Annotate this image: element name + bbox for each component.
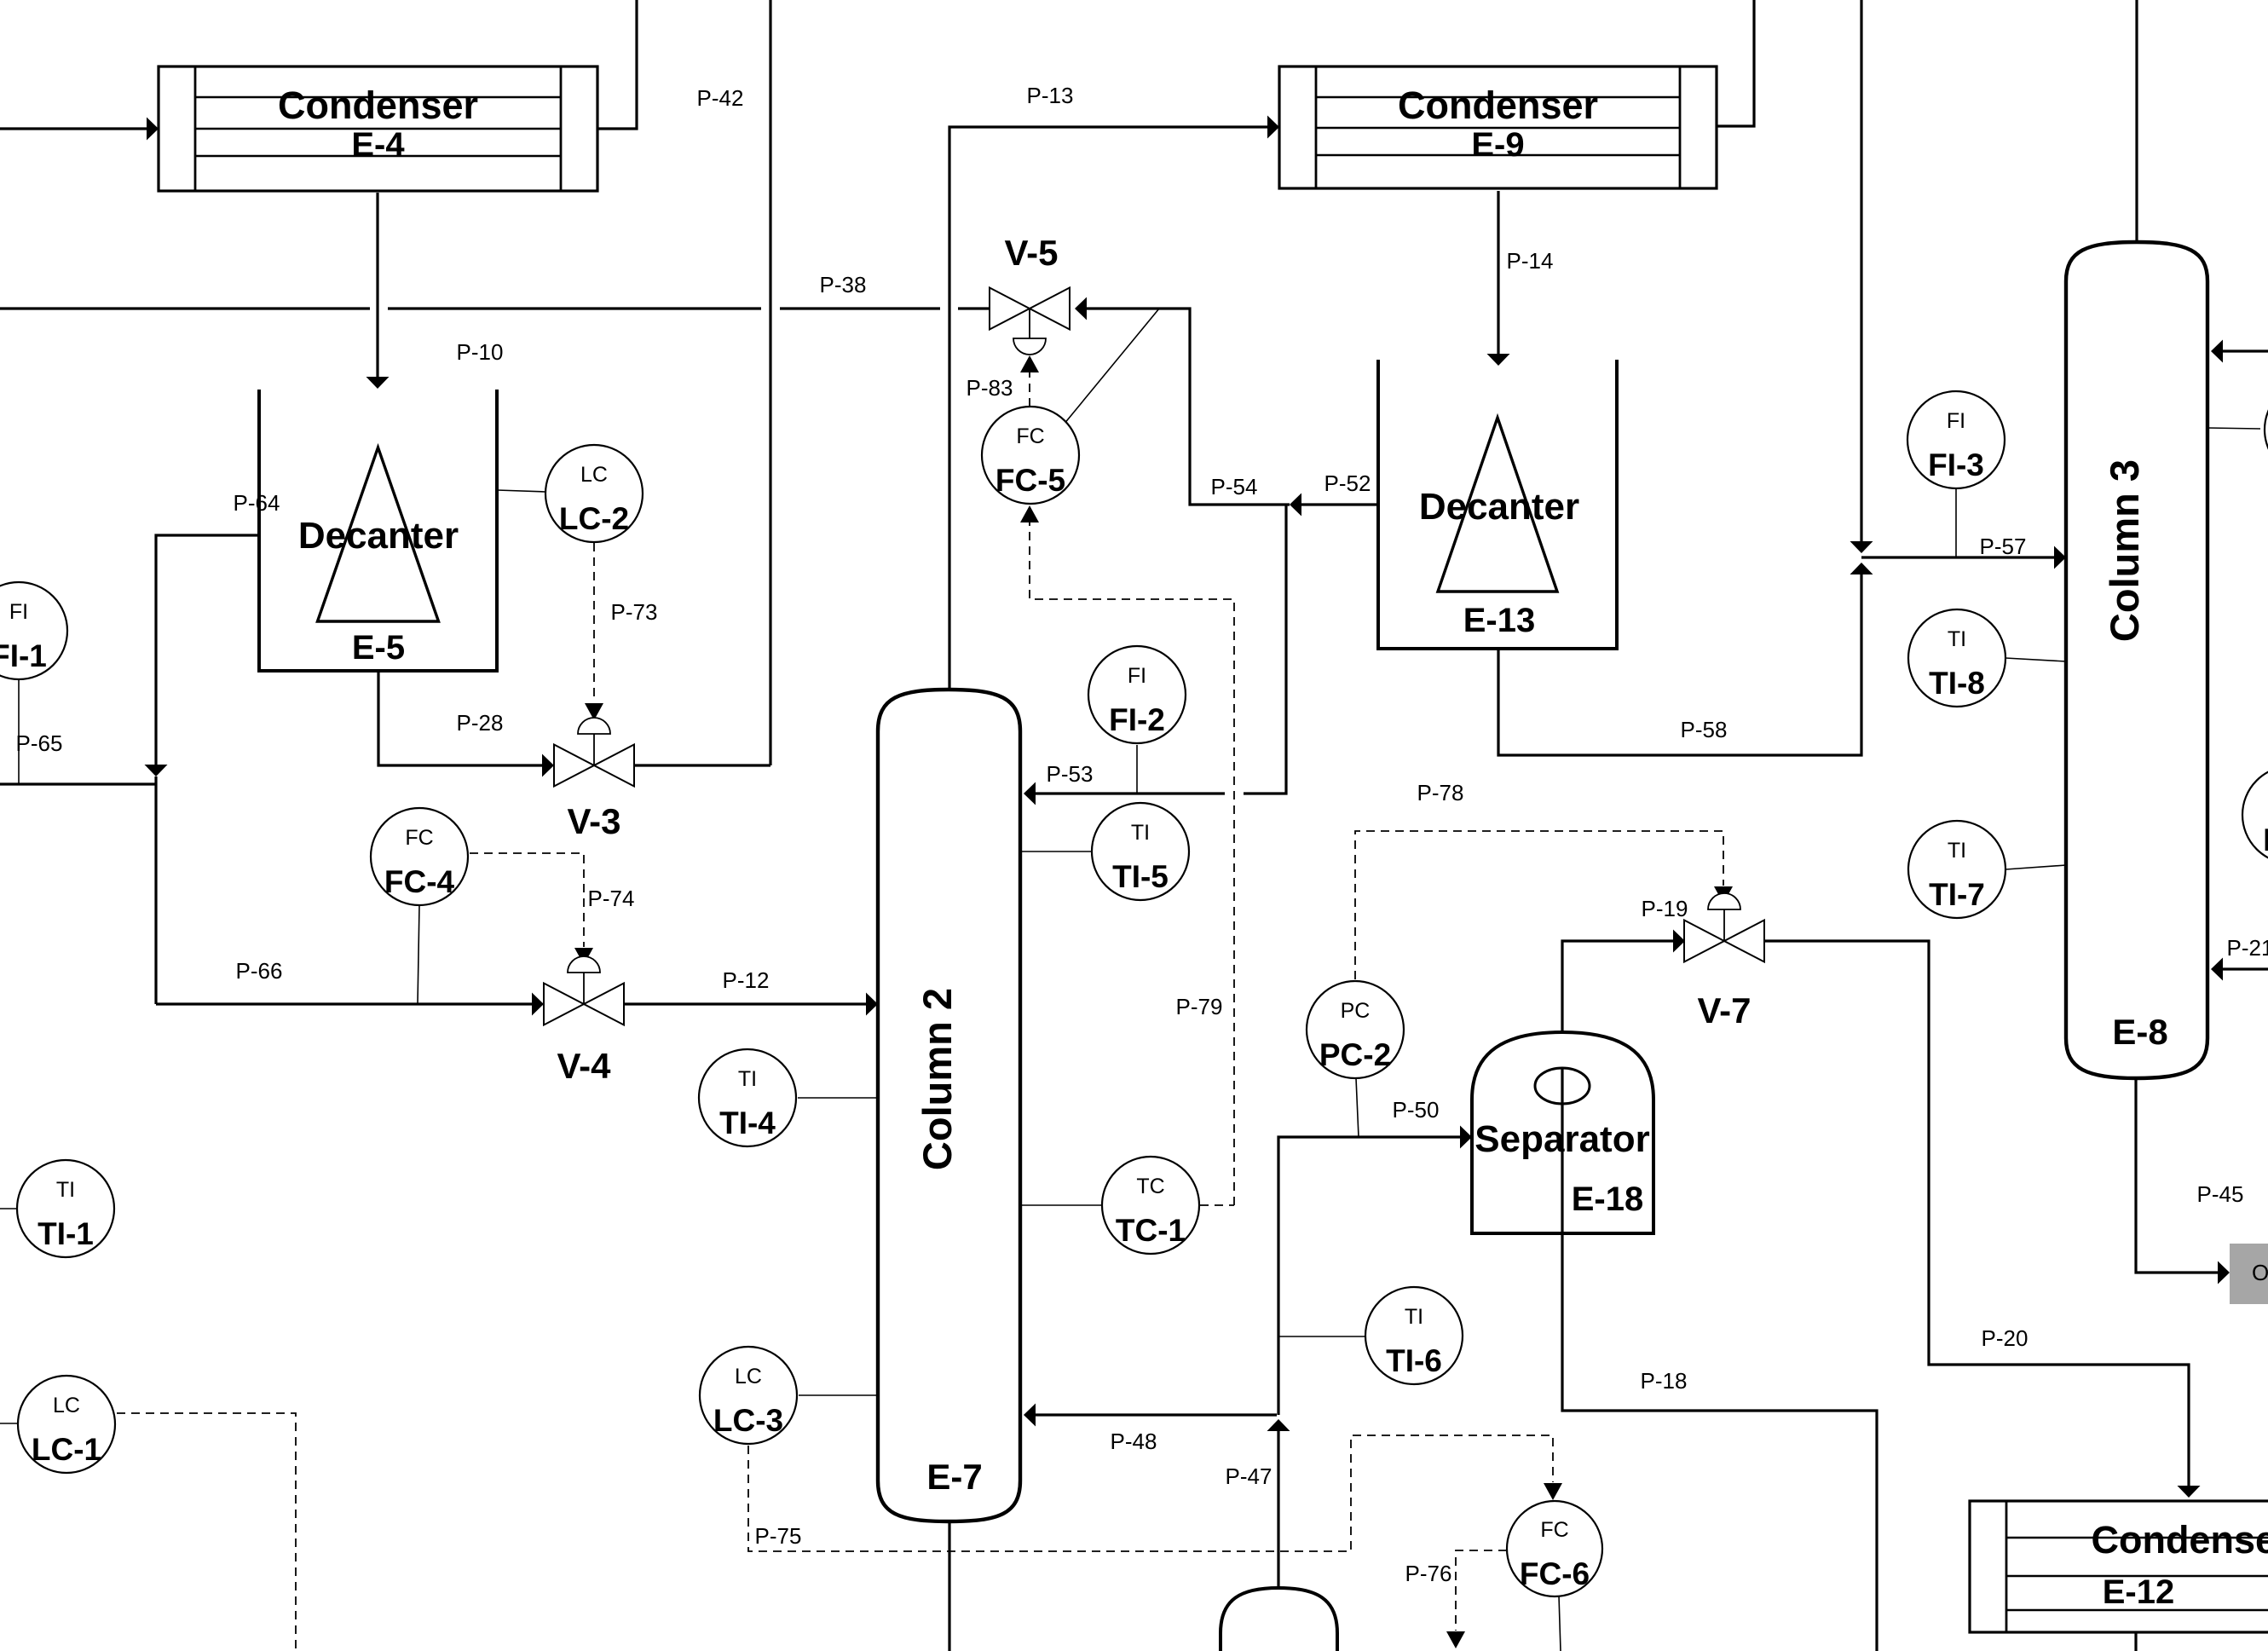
svg-text:P-66: P-66 (236, 958, 283, 984)
svg-text:TI: TI (56, 1178, 75, 1202)
wire E-12 bottom outlet (2134, 1632, 2137, 1651)
instrument TI-6 (1365, 1287, 1463, 1384)
wire FC-5 tap diagonal (1064, 309, 1159, 424)
svg-text:P-47: P-47 (1226, 1463, 1273, 1489)
svg-text:E-9: E-9 (1471, 126, 1524, 164)
svg-text:Separator: Separator (1474, 1118, 1649, 1160)
wire FC-4 tap (418, 905, 419, 1004)
svg-text:E-4: E-4 (351, 126, 405, 164)
wire P-83 dashed FC-5 to V-5 (1029, 372, 1030, 407)
svg-text:TI-8: TI-8 (1929, 666, 1985, 701)
wire TI-6 tap (1278, 1336, 1365, 1337)
svg-text:P-48: P-48 (1111, 1429, 1157, 1454)
instrument TI-1 (17, 1160, 114, 1257)
svg-text:Condenser: Condenser (278, 84, 478, 127)
wire E-4 outlet riser (597, 0, 637, 129)
wire FI-1 tap (18, 679, 20, 784)
instrument TC-1 (1102, 1157, 1199, 1254)
wire FC-6 tap (1559, 1596, 1561, 1651)
svg-text:P-76: P-76 (1405, 1561, 1452, 1586)
svg-text:P-21: P-21 (2227, 935, 2268, 961)
instrument TI-5 (1092, 803, 1189, 900)
svg-text:P-14: P-14 (1507, 248, 1554, 274)
svg-text:P-38: P-38 (820, 272, 867, 297)
svg-text:Column 2: Column 2 (915, 988, 960, 1170)
wire FI-2 tap (1136, 745, 1138, 794)
svg-text:P-50: P-50 (1393, 1097, 1440, 1123)
wire P-48 (1036, 1413, 1277, 1416)
wire FI-3 tap (1955, 488, 1957, 557)
condenser E-12 (1970, 1501, 2268, 1632)
svg-text:P-18: P-18 (1641, 1368, 1688, 1394)
svg-text:E-12: E-12 (2103, 1573, 2175, 1611)
instrument FI-3 (1907, 391, 2005, 488)
svg-text:P-42: P-42 (697, 85, 744, 111)
svg-text:LC-2: LC-2 (559, 501, 629, 536)
svg-text:TI: TI (1131, 821, 1150, 845)
wire P-12 (625, 1002, 866, 1005)
wire P-28 (378, 671, 542, 765)
svg-text:TC: TC (1136, 1175, 1164, 1198)
wire E-9 outlet riser (1717, 0, 1754, 126)
svg-text:P-64: P-64 (234, 490, 280, 516)
svg-text:LC-1: LC-1 (32, 1432, 101, 1467)
svg-text:FI-4: FI-4 (2263, 823, 2268, 857)
valve V-4 (544, 984, 584, 1025)
wire P-21 (2223, 967, 2268, 970)
svg-text:V-4: V-4 (557, 1046, 611, 1086)
reboiler vessel top (1221, 1588, 1337, 1651)
wire Separator top to V-7 (1562, 941, 1673, 1032)
wire P-54 (1087, 309, 1290, 505)
svg-text:P-54: P-54 (1211, 474, 1258, 499)
svg-text:P-12: P-12 (723, 967, 770, 993)
instrument TI-7 (1908, 821, 2005, 918)
svg-text:TI: TI (1948, 627, 1966, 651)
wire P-79 dashed TC-1 to FC-5 (1200, 1204, 1234, 1206)
wire TI-1 tap (0, 1208, 17, 1209)
svg-text:P-58: P-58 (1681, 717, 1728, 742)
wire Column 2 bottom outlet (948, 1521, 950, 1651)
wire P-45 (2136, 1078, 2218, 1273)
wire TI-4 tap (798, 1097, 878, 1099)
svg-text:P-65: P-65 (16, 730, 63, 756)
svg-text:P-74: P-74 (588, 886, 635, 911)
svg-text:E-7: E-7 (926, 1457, 982, 1497)
svg-text:Decanter: Decanter (298, 515, 459, 557)
wire TC-1 tap (1020, 1204, 1101, 1206)
instrument FC-5 (982, 407, 1079, 504)
svg-text:P-13: P-13 (1027, 83, 1074, 108)
wire TI-8 tap (2005, 658, 2066, 661)
instrument LC-1 (18, 1376, 115, 1473)
instrument LC-3 (700, 1347, 797, 1444)
wire TI-5 tap (1020, 851, 1092, 852)
wire V-7 to P-20 to E-12 (1764, 941, 2189, 1486)
valve V-5 (990, 288, 1030, 330)
svg-text:Decanter: Decanter (1419, 486, 1579, 528)
wire tap to edge circle (2207, 428, 2260, 429)
decanter E-5 (259, 390, 497, 671)
svg-text:FI-1: FI-1 (0, 638, 47, 673)
wire P-38 (0, 307, 370, 309)
wire PC-2 tap (1356, 1078, 1359, 1137)
svg-text:FC: FC (1016, 424, 1044, 448)
wire LC-3 tap (799, 1394, 878, 1396)
svg-text:P-45: P-45 (2197, 1181, 2244, 1207)
instrument edge circle right lower (2242, 766, 2268, 863)
column E-7 (Column 2) (878, 690, 1020, 1521)
instrument LC-2 (545, 445, 643, 542)
wire P-13 riser from Column 2 (949, 127, 1267, 690)
wire P-66 (156, 1002, 532, 1005)
instrument edge circle right upper (2265, 381, 2268, 478)
column E-8 (Column 3) (2066, 242, 2207, 1078)
separator E-18 (1472, 1032, 1653, 1233)
svg-text:E-8: E-8 (2112, 1012, 2167, 1052)
svg-text:FC: FC (1540, 1518, 1568, 1542)
svg-text:LC-3: LC-3 (713, 1403, 783, 1438)
svg-text:FI: FI (1128, 664, 1146, 688)
wire P-73 dashed LC-2 to V-3 (593, 543, 595, 702)
svg-text:Condenser: Condenser (1398, 84, 1598, 127)
svg-text:P-19: P-19 (1642, 896, 1688, 921)
instrument FC-4 (371, 808, 468, 905)
svg-text:FC-4: FC-4 (384, 864, 455, 899)
svg-text:E-13: E-13 (1463, 602, 1536, 639)
instrument FI-2 (1088, 646, 1186, 743)
svg-text:P-28: P-28 (457, 710, 504, 736)
svg-text:P-10: P-10 (457, 339, 504, 365)
svg-text:LC: LC (735, 1365, 762, 1388)
wire P-64 (156, 535, 259, 765)
svg-text:TI-7: TI-7 (1929, 877, 1985, 912)
wire E-13 outlet / P-58 (1498, 574, 1861, 755)
wire Column 3 top riser (2135, 0, 2138, 242)
wire P-18 (1562, 1032, 1877, 1651)
svg-text:P-20: P-20 (1982, 1325, 2029, 1351)
wire P-74 dashed FC-4 to V-4 (470, 853, 584, 947)
svg-text:P-79: P-79 (1176, 994, 1223, 1019)
svg-text:P-53: P-53 (1047, 761, 1094, 787)
wire P-42 riser (769, 0, 771, 765)
svg-text:FI: FI (1947, 409, 1965, 433)
instrument FC-6 (1507, 1501, 1602, 1596)
wire P-78 dashed PC-2 to V-7 (1355, 831, 1723, 979)
valve V-3 (554, 745, 594, 787)
wire P-52 (1301, 503, 1378, 505)
instrument TI-4 (699, 1049, 796, 1146)
svg-text:V-3: V-3 (567, 801, 620, 841)
svg-text:TI: TI (738, 1067, 757, 1091)
svg-text:FI: FI (9, 600, 28, 624)
wire E-4 inlet (0, 127, 147, 130)
wire TI-7 tap (2005, 865, 2066, 869)
svg-text:E-18: E-18 (1572, 1181, 1644, 1218)
Out block (2230, 1244, 2268, 1304)
condenser E-4 (159, 66, 597, 191)
svg-text:FC-5: FC-5 (995, 463, 1065, 498)
wire LC-1 tap (0, 1423, 18, 1424)
svg-text:TI-5: TI-5 (1112, 859, 1169, 894)
svg-text:TI: TI (1405, 1305, 1423, 1329)
wire riser to Separator / P-50 (1278, 1137, 1460, 1415)
separator nozzle oval (1535, 1068, 1590, 1104)
instrument TI-8 (1908, 609, 2005, 707)
wire inlet Column 3 upper right (2223, 349, 2268, 352)
decanter E-13 (1378, 360, 1617, 649)
svg-text:P-75: P-75 (755, 1523, 802, 1549)
svg-text:FI-3: FI-3 (1928, 447, 1984, 482)
wire P-57 feed riser (1860, 0, 1862, 541)
svg-text:FC-6: FC-6 (1520, 1556, 1590, 1591)
svg-text:TC-1: TC-1 (1116, 1213, 1186, 1248)
instrument FI-1 (0, 582, 67, 679)
svg-text:TI-4: TI-4 (719, 1105, 776, 1140)
svg-text:TI-6: TI-6 (1386, 1343, 1442, 1378)
svg-text:P-83: P-83 (967, 375, 1013, 401)
svg-text:FC: FC (405, 826, 433, 850)
svg-text:FI-2: FI-2 (1109, 702, 1165, 737)
svg-text:P-52: P-52 (1324, 470, 1371, 496)
wire P-57 (1861, 556, 2054, 558)
wire P-75 dashed LC-3 to FC-6 (748, 1435, 1553, 1551)
svg-text:Column 3: Column 3 (2102, 459, 2147, 642)
svg-text:P-78: P-78 (1417, 780, 1464, 805)
svg-text:LC: LC (580, 463, 608, 487)
wire P-10 (376, 193, 378, 377)
svg-text:TI-1: TI-1 (38, 1216, 94, 1251)
svg-text:Out: Out (2252, 1260, 2268, 1285)
svg-text:Condenser: Condenser (2091, 1518, 2268, 1562)
svg-text:E-5: E-5 (352, 629, 405, 667)
instrument PC-2 (1307, 981, 1404, 1078)
wire P-47 (1277, 1431, 1279, 1588)
valve V-7 (1684, 921, 1724, 962)
svg-text:LC: LC (53, 1394, 80, 1417)
svg-text:PC: PC (1341, 999, 1371, 1023)
condenser E-9 (1279, 66, 1717, 188)
svg-text:PC-2: PC-2 (1319, 1037, 1391, 1072)
wire P-76 dashed from FC-6 (1456, 1550, 1507, 1631)
wire P-53 (1244, 505, 1286, 794)
wire P-65 (0, 782, 156, 785)
svg-text:TI: TI (1948, 839, 1966, 863)
svg-text:V-7: V-7 (1697, 990, 1751, 1030)
wire dashed from LC-1 (117, 1413, 296, 1651)
svg-text:P-57: P-57 (1980, 534, 2027, 559)
svg-text:V-5: V-5 (1004, 233, 1058, 273)
wire LC-2 tap (497, 490, 545, 492)
svg-text:P-73: P-73 (611, 599, 658, 625)
wire P-14 (1497, 191, 1499, 354)
